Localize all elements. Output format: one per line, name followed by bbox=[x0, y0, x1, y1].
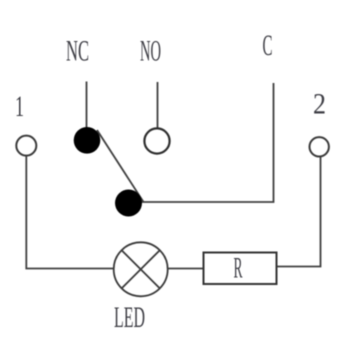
wire LED to resistor bbox=[168, 268, 203, 270]
svg-text:R: R bbox=[234, 252, 243, 285]
wire terminal 1 down and to LED bbox=[26, 156, 113, 269]
wire NC lead bbox=[86, 82, 88, 129]
contact NO (open) bbox=[144, 128, 169, 153]
terminal 2 bbox=[310, 137, 329, 156]
terminal 1 bbox=[16, 136, 36, 156]
wire switch arm NC to common bbox=[97, 130, 144, 202]
lamp LED symbol bbox=[114, 242, 168, 296]
wire NO lead bbox=[157, 82, 159, 129]
svg-text:2: 2 bbox=[313, 88, 326, 121]
node common C (filled) bbox=[115, 190, 142, 217]
svg-text:NO: NO bbox=[140, 35, 161, 68]
svg-text:NC: NC bbox=[66, 35, 89, 68]
resistor R box bbox=[204, 253, 277, 285]
wire resistor to terminal 2 bbox=[277, 157, 321, 267]
svg-text:1: 1 bbox=[15, 90, 24, 123]
contact NC (filled) bbox=[74, 127, 101, 154]
svg-text:LED: LED bbox=[114, 301, 145, 334]
svg-text:C: C bbox=[263, 29, 273, 62]
wire C lead to common node bbox=[141, 83, 274, 202]
